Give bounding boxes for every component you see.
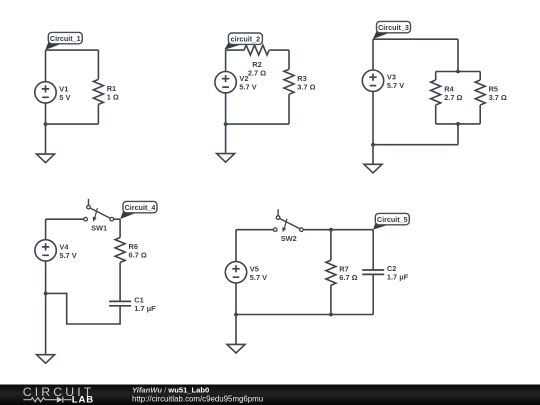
wire circuit3 R4 bottom <box>435 105 437 124</box>
wire circuit3 left upper <box>372 39 374 70</box>
wire circuit4 left lower <box>45 261 47 294</box>
wire circuit2 bottom <box>226 123 289 125</box>
footer bar <box>0 385 540 405</box>
label C1 1.7uF <box>134 296 156 314</box>
svg-text:6.7 Ω: 6.7 Ω <box>339 273 357 282</box>
label circuit_2 callout <box>224 33 262 50</box>
svg-text:5.7 V: 5.7 V <box>239 83 256 92</box>
svg-text:1.7 μF: 1.7 μF <box>387 273 409 282</box>
label Circuit_4 callout <box>120 201 157 219</box>
ground circuit5 <box>227 344 245 353</box>
svg-text:LAB: LAB <box>72 395 94 405</box>
svg-text:5.7 V: 5.7 V <box>387 81 404 90</box>
CircuitLab logo text CIRCUIT <box>23 385 95 399</box>
wire circuit5 left upper <box>235 230 237 262</box>
svg-text:Circuit_3: Circuit_3 <box>378 23 409 32</box>
voltage source V2 <box>215 72 236 93</box>
CircuitLab logo text LAB <box>72 395 94 405</box>
wire circuit5 C2 feed <box>372 230 374 270</box>
svg-text:3.7 Ω: 3.7 Ω <box>489 93 507 102</box>
label R5 3.7ohm <box>489 85 507 103</box>
ground circuit1 <box>37 154 55 163</box>
wire circuit5 C2 bottom <box>372 274 374 314</box>
wire circuit5 R7 bottom <box>330 285 332 314</box>
resistor R1 <box>93 79 103 104</box>
label Circuit_1 callout <box>45 32 82 50</box>
label C2 1.7uF <box>387 264 409 282</box>
svg-text:SW1: SW1 <box>91 223 107 232</box>
wire circuit5 top left <box>236 229 273 231</box>
wire circuit2 ground stem <box>225 124 227 154</box>
label R7 6.7ohm <box>339 265 357 283</box>
svg-text:5 V: 5 V <box>59 93 70 102</box>
wire circuit1 right lower <box>97 104 99 124</box>
node circuit5 R7 top <box>329 228 333 232</box>
label V5 5.7V <box>250 264 267 282</box>
wire circuit2 right upper <box>288 50 290 69</box>
ground circuit2 <box>217 154 235 163</box>
label R1 1ohm <box>107 84 119 102</box>
wire circuit2 left lower <box>225 93 227 124</box>
label V1 5V <box>59 84 70 102</box>
ground circuit3 <box>364 164 382 173</box>
svg-text:Circuit_5: Circuit_5 <box>377 215 408 224</box>
wire circuit3 bottom <box>373 144 458 146</box>
svg-text:6.7 Ω: 6.7 Ω <box>129 251 147 260</box>
label R4 2.7ohm <box>444 85 462 103</box>
voltage source V4 <box>35 240 56 261</box>
label V3 5.7V <box>387 73 404 91</box>
label V2 5.7V <box>239 74 256 92</box>
svg-text:1 Ω: 1 Ω <box>107 92 119 101</box>
node circuit2 ground junction <box>224 122 228 126</box>
wire circuit1 bottom <box>46 123 99 125</box>
label R2 2.7ohm <box>248 60 266 78</box>
wire circuit5 R7 feed <box>330 230 332 261</box>
wire circuit3 R5 bottom <box>479 105 481 124</box>
CircuitLab logo resistor-diode line <box>24 397 72 403</box>
wire circuit1 left upper <box>45 50 47 82</box>
wire circuit5 left lower <box>235 283 237 315</box>
resistor R7 <box>326 260 336 285</box>
label SW2 <box>281 234 297 243</box>
wire circuit3 right lower <box>457 124 459 145</box>
voltage source V3 <box>362 70 383 91</box>
wire circuit2 right lower <box>288 94 290 124</box>
wire circuit2 top left <box>226 49 245 51</box>
capacitor C1 <box>109 301 131 305</box>
svg-text:YifanWu / wu51_Lab0: YifanWu / wu51_Lab0 <box>132 385 209 394</box>
node circuit5 ground junction <box>234 313 238 317</box>
resistor R2 <box>244 45 269 55</box>
wire circuit1 ground stem <box>45 124 47 154</box>
svg-text:circuit_2: circuit_2 <box>231 35 261 44</box>
wire circuit3 right feed <box>457 39 459 71</box>
label Circuit_5 callout <box>373 213 409 229</box>
node circuit3 ground junction <box>371 143 375 147</box>
footer author line YifanWu / wu51_Lab0 <box>132 385 209 394</box>
node circuit3 parallel top <box>456 70 460 74</box>
svg-text:2.7 Ω: 2.7 Ω <box>248 69 266 78</box>
switch SW1 <box>84 199 114 222</box>
switch SW2 <box>273 209 303 232</box>
wire circuit2 top right <box>269 49 289 51</box>
ground circuit4 <box>37 355 55 364</box>
wire circuit4 R6 to C1 <box>119 263 121 302</box>
capacitor C2 <box>362 270 384 274</box>
wire circuit4 top right <box>114 218 121 220</box>
label V4 5.7V <box>59 242 76 260</box>
svg-text:http://circuitlab.com/c9edu95m: http://circuitlab.com/c9edu95mg6pmu <box>132 394 263 403</box>
wire circuit3 R5 top <box>479 72 481 81</box>
svg-text:SW2: SW2 <box>281 234 297 243</box>
svg-text:Circuit_1: Circuit_1 <box>50 34 81 43</box>
resistor R3 <box>284 69 294 94</box>
label R6 6.7ohm <box>129 242 147 260</box>
svg-text:5.7 V: 5.7 V <box>250 273 267 282</box>
wire circuit4 left upper <box>45 219 47 240</box>
wire circuit4 ground stem <box>45 293 47 354</box>
wire circuit3 parallel bottom rail <box>436 123 481 125</box>
svg-text:2.7 Ω: 2.7 Ω <box>444 93 462 102</box>
resistor R4 <box>431 80 441 105</box>
node circuit1 ground junction <box>44 122 48 126</box>
svg-text:5.7 V: 5.7 V <box>59 251 76 260</box>
wire circuit4 top left <box>46 218 84 220</box>
svg-text:3.7 Ω: 3.7 Ω <box>297 82 315 91</box>
wire circuit5 ground stem <box>235 315 237 345</box>
svg-text:Circuit_4: Circuit_4 <box>125 203 156 212</box>
wire circuit3 parallel top rail <box>436 71 481 73</box>
wire circuit3 top <box>373 38 458 40</box>
label Circuit_3 callout <box>373 21 411 39</box>
resistor R6 <box>115 238 125 263</box>
wire circuit5 top right <box>304 229 373 231</box>
wire circuit3 left lower <box>372 91 374 145</box>
wire circuit3 R4 top <box>435 72 437 81</box>
wire circuit1 right upper <box>97 50 99 79</box>
wire circuit5 bottom <box>236 314 373 316</box>
node circuit5 R7 bottom <box>329 313 333 317</box>
voltage source V5 <box>225 262 246 283</box>
footer url line <box>132 394 263 403</box>
voltage source V1 <box>35 82 56 103</box>
wire circuit1 top <box>46 49 99 51</box>
node circuit4 ground junction <box>44 292 48 296</box>
svg-text:1.7 μF: 1.7 μF <box>134 304 156 313</box>
node circuit3 parallel bottom <box>456 122 460 126</box>
wire circuit1 left lower <box>45 103 47 124</box>
label SW1 <box>91 223 107 232</box>
label R3 3.7ohm <box>297 74 315 92</box>
wire circuit4 C1 return <box>46 293 121 324</box>
wire circuit2 left upper <box>225 50 227 72</box>
resistor R5 <box>475 80 485 105</box>
wire circuit4 R6 top <box>119 219 121 237</box>
wire circuit3 ground stem <box>372 145 374 165</box>
